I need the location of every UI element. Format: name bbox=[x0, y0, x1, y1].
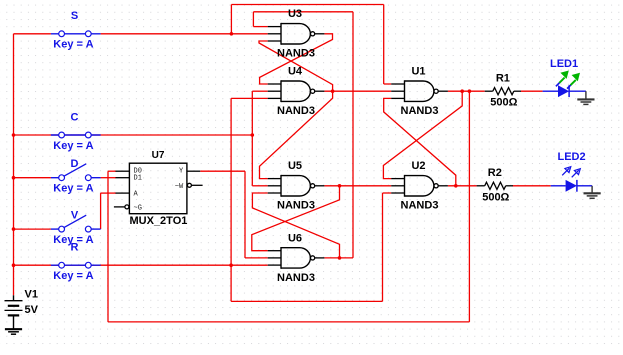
wire R to U4 bottom input bbox=[231, 97, 268, 99]
ground LED1 bbox=[577, 99, 594, 104]
wire bus to switch D bbox=[14, 177, 51, 179]
svg-text:U7: U7 bbox=[152, 150, 165, 161]
svg-text:C: C bbox=[71, 111, 79, 123]
switch S (Key = A) bbox=[51, 31, 101, 37]
wire left power bus vertical bbox=[13, 34, 15, 296]
LED1 diode (on) bbox=[543, 85, 586, 97]
NAND3 gate U4 bbox=[268, 80, 325, 102]
U7 pin Y bbox=[187, 170, 200, 172]
wire R vertical bbox=[230, 98, 232, 301]
wire U3 output to U4 top input bbox=[260, 34, 333, 84]
svg-text:5V: 5V bbox=[25, 304, 39, 316]
svg-text:D1: D1 bbox=[134, 174, 142, 182]
NAND3 gate U1 bbox=[391, 80, 448, 102]
svg-text:LED2: LED2 bbox=[558, 151, 586, 163]
wire down to U3 top input bbox=[252, 12, 254, 27]
wire V up to U7 A pin bbox=[100, 193, 102, 229]
svg-text:Key = A: Key = A bbox=[53, 39, 93, 51]
U7 pin D0 bbox=[116, 170, 130, 172]
wire U5 output to U2 middle input bbox=[324, 185, 391, 187]
svg-text:R2: R2 bbox=[488, 167, 502, 179]
wire into U7 A pin bbox=[101, 192, 116, 194]
wire into U1 top input bbox=[384, 83, 392, 85]
svg-text:NAND3: NAND3 bbox=[401, 105, 439, 117]
resistor R2 500ohm bbox=[477, 182, 513, 189]
node R junction bbox=[229, 263, 233, 267]
wire U6 output to U5 bottom input bbox=[252, 193, 339, 258]
wire S to U3 middle input bbox=[101, 33, 268, 35]
svg-text:MUX_2TO1: MUX_2TO1 bbox=[130, 215, 188, 227]
svg-text:LED1: LED1 bbox=[550, 58, 578, 70]
svg-text:NAND3: NAND3 bbox=[277, 48, 315, 60]
mux U7 MUX_2TO1 body bbox=[129, 163, 187, 214]
node U1 output junction 2 bbox=[468, 89, 472, 93]
U7 pin D1 bbox=[116, 177, 130, 179]
node bus-D junction bbox=[12, 176, 16, 180]
node U1 output junction 1 bbox=[460, 89, 464, 93]
svg-text:NAND3: NAND3 bbox=[277, 272, 315, 284]
svg-text:Key = A: Key = A bbox=[53, 270, 93, 282]
wire U2 output to R2 bbox=[448, 185, 477, 187]
node S junction bbox=[230, 32, 234, 36]
resistor R1 500ohm bbox=[485, 88, 521, 95]
wire bus to switch S bbox=[14, 33, 51, 35]
node C junction bbox=[251, 133, 255, 137]
wire feedback to U7 D0 pin bbox=[108, 170, 116, 172]
NAND3 gate U3 bbox=[268, 23, 325, 45]
wire feedback up to U1 output bbox=[468, 91, 470, 322]
NAND3 gate U5 bbox=[268, 175, 325, 197]
wire into U2 bottom input bbox=[383, 192, 392, 194]
node U2 output junction bbox=[454, 184, 458, 188]
svg-text:500Ω: 500Ω bbox=[482, 191, 509, 203]
wire U1 output to U2 top input bbox=[383, 91, 462, 178]
wire C to U4 middle input bbox=[252, 90, 267, 92]
ground below battery V1 bbox=[5, 329, 22, 334]
wire Y vertical bbox=[244, 171, 246, 258]
wire top rail S to U1 bbox=[231, 4, 383, 6]
svg-text:NAND3: NAND3 bbox=[401, 200, 439, 212]
U7 pin ~G with bubble bbox=[114, 205, 129, 209]
wire R bottom horizontal bbox=[231, 300, 382, 302]
node U4 output junction bbox=[331, 89, 335, 93]
wire U6 output vertical up bbox=[352, 12, 354, 258]
svg-text:V1: V1 bbox=[25, 289, 38, 301]
svg-text:Key = A: Key = A bbox=[53, 183, 93, 195]
svg-text:U4: U4 bbox=[288, 66, 303, 78]
wire bus through switch R to U6 bottom input bbox=[14, 264, 268, 266]
wire U7 Y output bbox=[200, 170, 245, 172]
svg-text:U5: U5 bbox=[288, 160, 302, 172]
node U6 output junction bbox=[338, 256, 342, 260]
svg-text:R1: R1 bbox=[496, 73, 510, 85]
LED2 diode (off) bbox=[551, 180, 592, 192]
U7 pin A bbox=[116, 192, 130, 194]
node U5 output junction bbox=[338, 184, 342, 188]
wire U4 output to U3 bottom input bbox=[259, 41, 333, 91]
wire bus to switch C and on to C junction bbox=[14, 134, 253, 136]
svg-text:500Ω: 500Ω bbox=[490, 97, 517, 109]
battery V1 5V bbox=[5, 295, 23, 329]
ground stem LED2 bbox=[591, 186, 593, 193]
svg-text:~W: ~W bbox=[175, 183, 184, 191]
svg-text:D: D bbox=[71, 158, 79, 170]
wire C to U5 middle input bbox=[252, 185, 267, 187]
wire R1 to LED1 bbox=[521, 90, 543, 92]
wire U1 output to R1 bbox=[448, 90, 485, 92]
svg-text:Key = A: Key = A bbox=[53, 140, 93, 152]
wire U5 output to U6 top input bbox=[252, 186, 340, 251]
switch R (Key = A) bbox=[51, 262, 101, 268]
wire feedback vertical bbox=[107, 171, 109, 322]
wire U2 output to U1 bottom input bbox=[384, 98, 456, 185]
node bus-R junction bbox=[12, 263, 16, 267]
NAND3 gate U6 bbox=[268, 247, 325, 269]
wire feedback bottom horizontal bbox=[108, 321, 469, 323]
LED2 arrows (blue outline) bbox=[562, 167, 580, 178]
switch D (Key = A) bbox=[51, 164, 101, 181]
wire into U3 top input bbox=[253, 26, 267, 28]
svg-text:U2: U2 bbox=[411, 160, 425, 172]
switch C (Key = A) bbox=[51, 132, 101, 138]
svg-text:S: S bbox=[71, 10, 78, 22]
U7 pin ~W with bubble bbox=[187, 183, 202, 187]
svg-text:V: V bbox=[71, 210, 79, 222]
wire Y to U6 middle input bbox=[245, 257, 268, 259]
svg-text:U6: U6 bbox=[288, 232, 302, 244]
wire D to U7 D1 pin bbox=[101, 177, 116, 179]
wire rail to U3 top input bbox=[253, 11, 353, 13]
wire U4 output to U1 middle input bbox=[324, 90, 391, 92]
ground stem LED1 bbox=[585, 91, 587, 99]
ground LED2 bbox=[584, 193, 601, 198]
wire up to U2 bottom input bbox=[382, 193, 384, 301]
svg-text:NAND3: NAND3 bbox=[277, 105, 315, 117]
svg-text:~G: ~G bbox=[134, 204, 142, 212]
wire S junction up bbox=[230, 5, 232, 34]
wire R2 to LED2 bbox=[512, 185, 551, 187]
svg-text:U1: U1 bbox=[411, 66, 425, 78]
wire bus to switch V bbox=[14, 228, 51, 230]
switch V (Key = A) bbox=[51, 215, 101, 232]
node bus-C junction bbox=[12, 133, 16, 137]
svg-text:NAND3: NAND3 bbox=[277, 200, 315, 212]
wire U6 output bbox=[324, 257, 353, 259]
wire U4 output to U5 top input bbox=[260, 91, 333, 178]
node bus-V junction bbox=[12, 227, 16, 231]
svg-text:U3: U3 bbox=[288, 8, 302, 20]
wire down to U1 top input bbox=[383, 5, 385, 85]
NAND3 gate U2 bbox=[391, 175, 448, 197]
wire C vertical bbox=[251, 91, 253, 186]
LED1 arrows (green) bbox=[556, 71, 580, 89]
svg-text:R: R bbox=[71, 242, 79, 254]
